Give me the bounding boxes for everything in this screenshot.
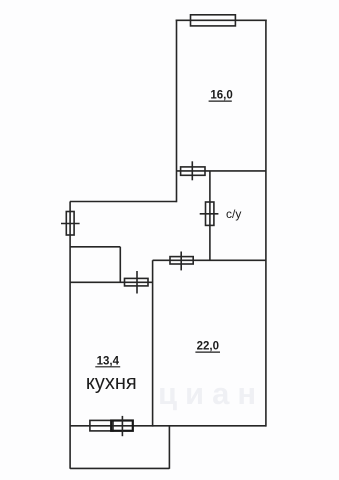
svg-text:22,0: 22,0 (197, 341, 219, 353)
svg-text:циан: циан (158, 376, 264, 411)
svg-text:16,0: 16,0 (210, 90, 232, 102)
wall bottom of room 16,0 (177, 170, 266, 172)
wall left of bathroom (209, 171, 211, 260)
wall top of room 16,0 (176, 19, 267, 21)
window top of room 16,0 (191, 15, 236, 26)
window kitchen left pane (90, 420, 113, 431)
wall balcony bottom (70, 467, 169, 469)
window kitchen tick (121, 416, 123, 436)
door room 22,0 (170, 257, 193, 264)
wall left of room 16,0 (176, 20, 178, 203)
wall kitchen-room divider (152, 260, 154, 426)
room label 16,0 (86, 90, 241, 394)
wall balcony right (168, 426, 170, 469)
wall right exterior (265, 20, 267, 427)
wall corridor top (70, 201, 177, 203)
wall top of room 22,0 (153, 259, 266, 261)
door bathroom (206, 202, 214, 225)
wall closet top (70, 246, 120, 248)
svg-text:с/у: с/у (226, 207, 241, 221)
door entrance left (66, 212, 74, 236)
window kitchen right pane (balcony door, bold) (111, 421, 133, 431)
door room 16,0 (181, 167, 205, 175)
wall left exterior (69, 202, 71, 469)
svg-text:кухня: кухня (86, 372, 137, 394)
wall closet right (119, 247, 121, 282)
wall bottom exterior (70, 425, 266, 427)
svg-text:13,4: 13,4 (97, 355, 120, 367)
door kitchen (125, 278, 149, 286)
wall kitchen top (70, 281, 153, 283)
